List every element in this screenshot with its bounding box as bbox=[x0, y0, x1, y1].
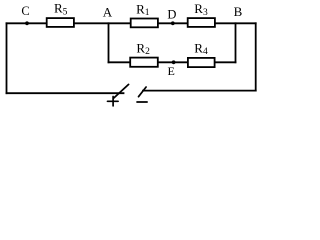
wire left vertical bbox=[6, 23, 8, 93]
wire top horizontal C-A-D-B bbox=[7, 22, 256, 24]
svg-text:C: C bbox=[21, 4, 29, 18]
battery long plate (positive) bbox=[114, 84, 129, 98]
wire node A vertical branch bbox=[108, 23, 110, 62]
junction dot node D bbox=[171, 21, 175, 25]
wire lower branch A-E-B bbox=[109, 61, 236, 63]
svg-text:E: E bbox=[168, 64, 175, 78]
junction dot node E bbox=[172, 60, 176, 64]
wire bottom right from battery - plate bbox=[143, 90, 256, 92]
battery plus sign bbox=[108, 100, 119, 102]
svg-text:D: D bbox=[167, 7, 176, 21]
wire right vertical bbox=[255, 23, 257, 90]
resistor R1 bbox=[131, 19, 158, 28]
resistor R5 bbox=[47, 18, 74, 27]
wire node B vertical branch bbox=[235, 23, 237, 62]
resistor R2 bbox=[130, 58, 158, 67]
wire bottom left to battery + plate bbox=[7, 92, 124, 94]
resistor R4 bbox=[188, 58, 215, 67]
battery short plate (negative) bbox=[139, 87, 147, 97]
junction dot node C bbox=[25, 21, 29, 25]
svg-text:A: A bbox=[103, 4, 113, 19]
battery minus sign bbox=[137, 101, 147, 103]
svg-text:B: B bbox=[234, 4, 243, 19]
resistor R3 bbox=[188, 18, 215, 27]
